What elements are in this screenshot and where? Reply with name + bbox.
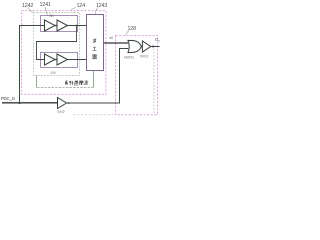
svg-text:128: 128 [128,26,137,32]
dashed bottom border segment [74,114,117,116]
multiplexer 1243 box [87,15,104,71]
wire output [150,46,159,48]
buffer B4 [57,54,68,65]
buffer box 1241 [41,16,78,32]
label zi [65,81,68,85]
dotted box 1242 [34,13,80,76]
wire chain2 out to mux [68,59,87,61]
leader 1243 [95,8,98,15]
junction NOR out [141,46,143,48]
dotted drop from output [153,49,155,115]
label liao [69,81,73,85]
svg-text:INV2: INV2 [58,110,65,114]
wire chain1 out to mux [68,25,87,27]
mux text qi [92,55,96,59]
buffer B1 [45,20,56,31]
dashed box 128 [116,36,158,115]
inverter INV2 [58,98,67,109]
svg-text:INV: INV [49,14,55,18]
wire select line left riser [36,76,38,88]
wire mux out to NOR [104,42,129,44]
buffer B3 [45,54,56,65]
svg-text:PDC_in: PDC_in [1,96,16,101]
leader 1242 [28,8,33,13]
wire riser to chain1 [20,26,45,104]
junction output [152,46,154,48]
wire PDC_in [2,102,58,104]
svg-text:1242: 1242 [22,3,33,9]
mux text duo [93,39,97,43]
label ze [79,81,83,85]
leader 1241 [45,7,48,15]
svg-text:1243: 1243 [96,3,107,9]
junction between B3 B4 [55,59,57,61]
label xuan [74,81,78,85]
svg-text:d6: d6 [110,36,114,40]
wire select line vertical from mux [93,71,95,88]
leader 128 [126,31,129,36]
buffer B2 [57,20,68,31]
svg-text:NOR1: NOR1 [124,56,134,60]
wire INV2 out up to NOR [67,49,129,104]
junction PDC [18,102,20,104]
svg-text:INV: INV [51,71,57,75]
svg-text:INV3: INV3 [140,55,148,59]
wire feedback down-left to chain2 [37,26,77,60]
junction INV2 out [68,102,70,104]
mux text gong [93,47,97,50]
svg-text:124: 124 [77,3,86,9]
junction between B1 B2 [55,25,57,27]
NOR gate NOR1 [128,40,141,52]
wire select line horizontal [37,87,94,89]
leader 124 [71,7,76,10]
junction feedback tap [76,25,78,27]
outer dashed box 124 [22,11,107,95]
buffer box chain2 [41,53,78,68]
label xian [84,81,88,85]
inverter INV3 [142,41,150,52]
